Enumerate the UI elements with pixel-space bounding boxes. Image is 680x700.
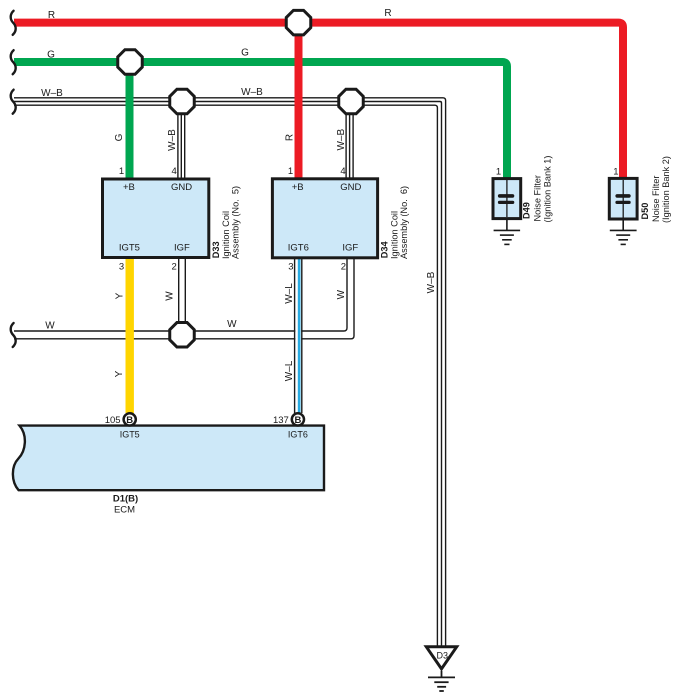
svg-text:D1(B): D1(B): [113, 494, 138, 505]
ground triangle D3: [426, 647, 456, 669]
wire W-B vertical to D34 GND pin 4: [346, 102, 353, 180]
svg-text:1: 1: [119, 166, 124, 177]
svg-text:IGF: IGF: [342, 242, 358, 253]
junction node on W bus: [170, 323, 195, 348]
ground under D49: [494, 219, 520, 245]
wire W vertical from D33 IGF pin 2 to junction: [179, 258, 186, 332]
svg-text:IGT5: IGT5: [119, 242, 140, 253]
wire Y from D33 IGT5 pin 3 down to ECM pin 105: [125, 258, 133, 414]
wire R vertical from junction to D34 +B pin 1: [295, 23, 303, 179]
svg-text:Assembly (No. 6): Assembly (No. 6): [399, 186, 409, 259]
junction node on W-B bus (right, feeds D34 GND): [339, 89, 364, 114]
svg-text:D3: D3: [437, 651, 449, 661]
svg-text:W–B: W–B: [167, 129, 178, 151]
svg-text:Noise Filter: Noise Filter: [532, 175, 542, 221]
wire G horizontal with corner down to D49 pin 1: [14, 62, 507, 179]
svg-text:(Ignition Bank 2): (Ignition Bank 2): [661, 156, 671, 223]
svg-text:W: W: [165, 291, 176, 301]
svg-text:+B: +B: [123, 182, 135, 193]
svg-text:G: G: [114, 133, 125, 141]
svg-text:Y: Y: [114, 292, 125, 299]
svg-text:B: B: [126, 415, 133, 426]
svg-text:GND: GND: [171, 182, 192, 193]
svg-text:IGT6: IGT6: [288, 242, 309, 253]
wire R horizontal with corner down to D50 pin 1: [14, 23, 623, 179]
svg-text:R: R: [285, 134, 296, 141]
ECM pin 137 connector circle: [292, 413, 304, 425]
svg-text:Assembly (No. 5): Assembly (No. 5): [231, 186, 241, 259]
ignition coil D33 box: [103, 179, 209, 258]
svg-text:3: 3: [288, 261, 293, 272]
wire break symbol W (left edge): [11, 323, 16, 347]
ECM box D1(B): [13, 426, 324, 491]
svg-text:IGT5: IGT5: [120, 429, 140, 439]
wire G vertical from junction to D33 +B pin 1: [126, 62, 134, 179]
svg-text:105: 105: [105, 415, 121, 426]
svg-text:137: 137: [273, 415, 289, 426]
svg-text:4: 4: [340, 166, 345, 177]
svg-text:1: 1: [288, 166, 293, 177]
svg-text:Y: Y: [114, 370, 125, 377]
wire W-L from D34 IGT6 pin 3 down to ECM pin 137: [295, 258, 302, 413]
svg-text:2: 2: [341, 261, 346, 272]
svg-text:Noise Filter: Noise Filter: [651, 176, 661, 222]
svg-text:(Ignition Bank 1): (Ignition Bank 1): [542, 156, 552, 223]
svg-text:1: 1: [496, 166, 501, 177]
svg-text:IGT6: IGT6: [288, 429, 308, 439]
svg-text:D49: D49: [521, 202, 531, 219]
ECM pin 105 connector circle: [124, 413, 136, 425]
ground symbol under D3: [428, 671, 455, 691]
svg-text:W: W: [45, 320, 55, 331]
junction node on W-B bus (left, feeds D33 GND): [170, 89, 195, 114]
svg-text:2: 2: [172, 261, 177, 272]
junction node on G wire: [118, 50, 143, 75]
svg-text:W–L: W–L: [284, 283, 295, 304]
wire break symbol G (left edge): [11, 50, 16, 74]
noise filter D49 box: [493, 179, 521, 219]
svg-text:W: W: [336, 289, 347, 299]
wire break symbol R (left edge): [11, 11, 16, 35]
svg-text:G: G: [241, 48, 249, 59]
svg-text:W–B: W–B: [241, 87, 263, 98]
svg-text:W–B: W–B: [336, 129, 347, 151]
svg-text:G: G: [47, 49, 55, 60]
svg-text:W–B: W–B: [426, 271, 437, 293]
svg-text:ECM: ECM: [114, 505, 135, 516]
noise filter D50 box: [609, 178, 637, 219]
svg-text:D33: D33: [211, 241, 221, 258]
junction node on R wire: [286, 10, 311, 34]
svg-text:D50: D50: [640, 203, 650, 220]
svg-text:W–B: W–B: [41, 88, 63, 99]
wire break symbol W-B (left edge): [11, 90, 16, 114]
ground under D50: [610, 219, 637, 244]
svg-text:4: 4: [172, 166, 177, 177]
svg-text:R: R: [48, 10, 55, 21]
wire W-B vertical to D33 GND pin 4: [178, 102, 185, 180]
svg-text:1: 1: [613, 166, 618, 177]
svg-text:D34: D34: [379, 240, 389, 258]
svg-text:R: R: [384, 8, 391, 19]
svg-text:IGF: IGF: [174, 242, 190, 253]
ignition coil D34 box: [272, 179, 377, 258]
svg-text:B: B: [294, 415, 301, 426]
svg-text:3: 3: [119, 261, 124, 272]
svg-text:GND: GND: [340, 182, 361, 193]
svg-text:W–L: W–L: [284, 360, 295, 381]
svg-text:+B: +B: [292, 182, 304, 193]
wire W bus horizontal (double line) with corner up to D34 IGF pin 2: [14, 258, 354, 339]
svg-text:W: W: [227, 319, 237, 330]
wire W-B bus horizontal top + long right drop to D3 (triple line): [14, 98, 446, 646]
